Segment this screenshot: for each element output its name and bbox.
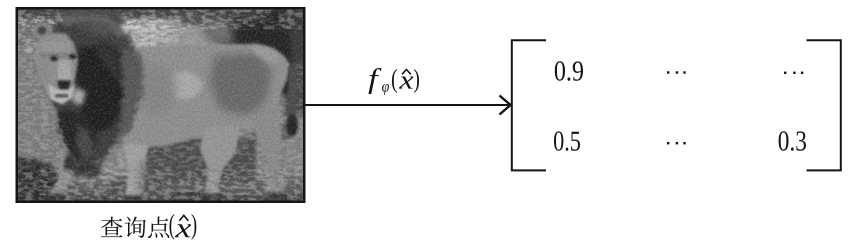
left bush area	[13, 7, 63, 49]
phi subscript	[382, 84, 389, 95]
ground bottom band	[13, 182, 308, 206]
close paren f label	[414, 69, 419, 93]
matrix value 0.3	[779, 131, 806, 151]
dark bush band right	[181, 13, 308, 26]
bg speckle ground light	[18, 54, 303, 201]
bottom-left dark blob	[13, 154, 63, 201]
muzzle white	[48, 84, 75, 105]
tree trunk	[265, 10, 292, 96]
open paren f label	[392, 69, 397, 93]
tail	[288, 66, 298, 120]
bg speckle ground dark	[18, 54, 303, 201]
ground mottles	[109, 183, 137, 197]
mane streak right	[116, 56, 138, 148]
mane ragged bottom	[62, 148, 104, 176]
lion photo scene	[13, 5, 308, 206]
top dark tree strip	[13, 5, 308, 19]
close paren cjk label	[192, 214, 197, 240]
mane right transition	[118, 44, 142, 144]
x in f label	[399, 76, 413, 88]
left ear	[33, 23, 51, 39]
x in cjk label	[175, 224, 191, 237]
ground under belly dark	[130, 138, 256, 188]
dots row1 col3	[784, 72, 803, 74]
fine grain light	[18, 10, 303, 201]
hind leg far	[248, 106, 286, 198]
mane top merge trees	[56, 7, 124, 26]
mid ground left strip	[13, 52, 108, 164]
matrix left bracket	[512, 40, 546, 170]
top right corner dark clump	[280, 10, 306, 30]
chinese label char cha	[101, 216, 169, 238]
eyes	[50, 56, 58, 61]
bottom darkest strip	[13, 195, 308, 206]
feet dark	[46, 194, 65, 202]
front leg far	[48, 136, 82, 200]
hind leg near (stepping)	[200, 126, 240, 200]
bush dark core	[228, 22, 270, 50]
lion photo frame	[16, 7, 306, 203]
mane streak light top	[70, 18, 116, 36]
face	[34, 33, 78, 102]
near front leg shin shadow	[136, 160, 146, 200]
arrow line	[305, 104, 509, 106]
mouth line	[55, 95, 68, 98]
bright grass patch	[50, 21, 166, 51]
lion torso	[78, 44, 290, 148]
grass speckle feet band light	[18, 170, 303, 201]
hindquarter shading	[210, 53, 272, 116]
dark bush mass top right	[204, 10, 308, 66]
tail tuft	[286, 115, 298, 137]
bush transition patch	[201, 18, 234, 46]
front leg near	[124, 144, 148, 203]
mane crown light	[56, 13, 126, 38]
f of f_phi	[368, 68, 381, 94]
top strip texture	[18, 10, 303, 30]
nose bridge light	[57, 61, 72, 82]
mane core	[35, 12, 138, 166]
base background	[18, 10, 303, 201]
grass speckle feet band dark	[18, 170, 303, 201]
fine grain dark	[18, 10, 303, 201]
mane streak mid	[96, 40, 120, 80]
dark shadow right of rump	[284, 38, 308, 116]
light grass band	[13, 19, 308, 52]
dots row2 col2	[667, 142, 686, 144]
cheek shade left	[38, 62, 50, 86]
shoulder mid tone	[136, 64, 176, 116]
grass dimmer mid right	[176, 20, 218, 52]
mane dark under chin	[56, 106, 96, 162]
hat over x in f label	[402, 70, 411, 75]
open paren cjk label	[170, 214, 175, 240]
mane dark cheek right	[74, 42, 124, 134]
arrow head	[500, 96, 511, 115]
matrix value 0.9	[555, 61, 583, 81]
nose	[57, 81, 71, 92]
matrix right bracket	[807, 40, 841, 170]
flank highlight	[166, 72, 202, 100]
bg speckle top dark	[18, 10, 303, 54]
brow shading line	[40, 53, 77, 58]
ground bottom right lighter patch	[268, 178, 308, 201]
bg speckle top light	[18, 10, 303, 54]
mane streak chest	[74, 122, 94, 162]
forehead brow light	[42, 42, 70, 54]
hat over x in cjk label	[179, 215, 188, 220]
matrix value 0.5	[554, 131, 580, 151]
jaw fringe light	[72, 88, 86, 106]
dots row1 col2	[667, 71, 686, 73]
ground right of legs	[258, 94, 308, 205]
rump light crest	[250, 45, 280, 64]
